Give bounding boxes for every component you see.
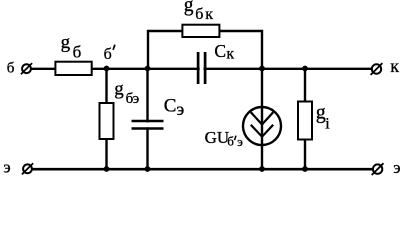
wire main horizontal b-k line [30,68,373,70]
svg-text:к: к [226,45,234,62]
svg-text:GU: GU [205,128,230,147]
resistor g_bk [182,25,219,37]
svg-text:g: g [184,0,194,16]
svg-text:к: к [205,6,213,23]
svg-text:э: э [237,134,243,149]
junction dot g_i top [302,66,308,72]
wire g_i branch vertical [304,69,306,170]
svg-text:э: э [133,91,139,107]
wire bottom emitter rail [32,168,374,171]
terminal k [371,63,383,75]
junction dot bottom source [259,166,265,172]
label GU b'e [205,128,244,149]
terminal b [21,63,32,74]
svg-text:э: э [393,158,400,177]
svg-text:g: g [114,79,124,100]
junction dot collector node [259,66,265,72]
terminal e left [22,163,33,174]
junction dot bottom C_e [145,166,151,172]
label g_i [316,102,331,133]
svg-text:g: g [61,32,71,53]
svg-text:к: к [390,56,399,76]
label b left [7,61,15,77]
label e bottom left [3,157,10,176]
label k right [390,56,399,76]
svg-text:C: C [164,96,177,117]
label g_bk [184,0,214,23]
label g_be [114,79,139,107]
wire C_e branch vertical [146,69,148,170]
label C_k [214,41,234,63]
svg-text:б: б [227,134,234,149]
terminal e right [372,163,384,175]
junction dot top of C_e branch [145,66,151,72]
svg-text:g: g [316,102,326,124]
resistor g_be [100,103,114,139]
svg-text:б: б [73,43,82,62]
junction dot bottom g_be [104,166,110,172]
junction dot bottom g_i [302,166,308,172]
svg-text:б: б [104,46,112,63]
label e bottom right [393,158,400,177]
svg-text:э: э [3,157,10,176]
svg-text:э: э [177,99,185,119]
node b' junction dot [104,66,110,72]
label C_e [164,96,185,119]
wire top feedback rail with corners [148,31,262,69]
label g_b [61,32,82,62]
wire current source branch vertical [261,69,263,170]
current source GU [243,107,281,145]
capacitor C_k [198,52,205,84]
svg-text:C: C [214,41,226,61]
capacitor C_e [132,121,164,129]
label node b' [104,45,115,63]
resistor g_b [55,62,91,75]
resistor g_i [298,102,312,140]
svg-text:б: б [7,61,15,77]
svg-text:б: б [195,6,203,23]
svg-text:i: i [325,116,330,133]
wire g_be branch vertical [105,69,107,170]
